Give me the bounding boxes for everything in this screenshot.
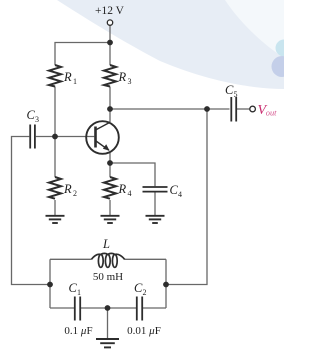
svg-text:3: 3 [35, 115, 39, 124]
node: base junction [52, 134, 58, 140]
resistor R2 [49, 177, 77, 199]
node: emitter junction [107, 160, 113, 166]
capacitor C5 [225, 83, 238, 122]
resistor R1 [49, 65, 77, 87]
node: tank right junction [163, 282, 169, 288]
wire: supply rail [12, 25, 250, 338]
svg-text:+12 V: +12 V [95, 5, 125, 17]
svg-text:R: R [118, 182, 127, 196]
svg-text:2: 2 [143, 288, 147, 297]
resistor R3 [104, 65, 132, 87]
svg-text:R: R [118, 70, 127, 84]
decorative cyan circle [276, 40, 293, 57]
svg-text:R: R [63, 182, 72, 196]
ground (R4) [101, 216, 120, 223]
supply terminal +12 V [95, 5, 125, 25]
node: C5 branch junction [204, 106, 210, 112]
ground (C4) [146, 216, 165, 223]
capacitor C2 [127, 281, 161, 337]
capacitor C4 [143, 183, 183, 199]
transistor Q1 [86, 121, 119, 154]
svg-text:1: 1 [73, 77, 77, 86]
svg-text:R: R [63, 70, 72, 84]
svg-text:50 mH: 50 mH [93, 271, 123, 283]
resistor R4 [104, 177, 132, 199]
node: supply junction [107, 40, 113, 46]
svg-text:L: L [102, 237, 110, 251]
node: tank center junction [105, 305, 111, 311]
inductor L [91, 237, 124, 283]
capacitor C3 [27, 108, 40, 149]
background swoosh [57, 0, 284, 89]
svg-text:out: out [266, 108, 277, 117]
output terminal Vout [250, 103, 277, 118]
ground (tank) [96, 339, 119, 347]
node: collector junction [107, 106, 113, 112]
svg-text:4: 4 [178, 190, 182, 199]
svg-text:3: 3 [128, 77, 132, 86]
decorative periwinkle circle [272, 56, 293, 77]
svg-text:2: 2 [73, 189, 77, 198]
svg-text:0.01 μF: 0.01 μF [127, 325, 161, 337]
ground (R2) [46, 216, 65, 223]
svg-text:1: 1 [77, 288, 81, 297]
node: tank left junction [47, 282, 53, 288]
capacitor C1 [64, 281, 92, 337]
svg-text:0.1 μF: 0.1 μF [64, 325, 92, 337]
svg-text:4: 4 [128, 189, 132, 198]
